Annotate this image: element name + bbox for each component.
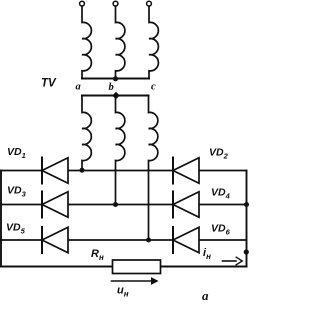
svg-text:TV: TV — [41, 78, 57, 90]
resistor Rн load box — [113, 260, 161, 274]
diode VD5 — [42, 227, 68, 253]
diode VD4 — [173, 192, 199, 218]
node row 2 to right rail junction — [244, 202, 249, 207]
diode VD3 — [42, 192, 68, 218]
node winding b to row 2 junction — [113, 202, 118, 207]
wire cathode row 3 — [1, 239, 247, 241]
primary winding phase c of transformer TV — [149, 6, 158, 78]
primary winding phase a of transformer TV — [82, 6, 91, 78]
diode VD1 — [42, 158, 68, 184]
svg-text:c: c — [151, 82, 156, 93]
primary winding phase b of transformer TV — [116, 6, 125, 78]
secondary winding b — [116, 96, 125, 205]
wire secondary top bus — [82, 95, 149, 97]
wire cathode row 2 — [1, 204, 247, 206]
svg-text:a: a — [76, 82, 81, 93]
wire right rail — [246, 171, 248, 267]
svg-text:а: а — [202, 288, 209, 303]
terminal A (phase a input circle) — [80, 1, 85, 6]
diode VD2 — [173, 158, 199, 184]
arrow iн current arrow — [223, 257, 243, 265]
wire cathode row 1 — [1, 170, 247, 172]
secondary winding c — [149, 96, 158, 241]
node winding a to row 1 junction — [80, 168, 85, 173]
arrow uн voltage arrow — [112, 278, 158, 284]
wire left rail — [0, 171, 2, 267]
node right rail current junction — [244, 249, 249, 254]
secondary winding a — [82, 96, 91, 171]
svg-text:b: b — [109, 82, 114, 93]
diode VD6 — [173, 227, 199, 253]
wire primary star bus — [82, 78, 149, 80]
node winding c to row 3 junction — [146, 238, 151, 243]
node secondary bus diamond junction — [112, 92, 120, 99]
terminal C (phase c input circle) — [147, 1, 152, 6]
terminal B (phase b input circle) — [113, 1, 118, 6]
wire bottom rail left of load — [1, 266, 113, 268]
wire bottom rail right of load — [161, 266, 247, 268]
node primary star dot — [113, 76, 118, 81]
